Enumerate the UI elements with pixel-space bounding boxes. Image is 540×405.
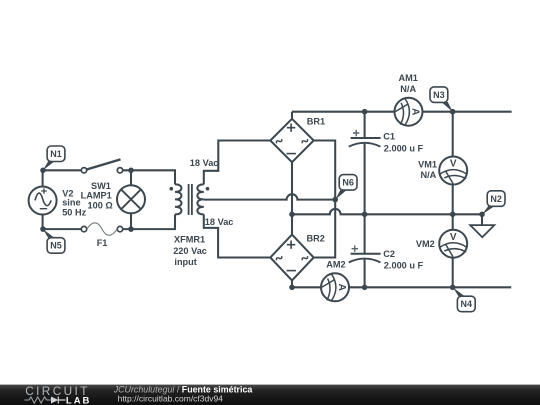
svg-text:VM1: VM1 (418, 160, 437, 170)
svg-text:http://circuitlab.com/cf3dv94: http://circuitlab.com/cf3dv94 (118, 394, 224, 404)
svg-text:N3: N3 (433, 90, 445, 100)
svg-text:AM2: AM2 (326, 259, 345, 269)
svg-text:VM2: VM2 (416, 239, 435, 249)
svg-text:BR2: BR2 (307, 234, 325, 244)
svg-text:100 Ω: 100 Ω (88, 201, 113, 211)
svg-text:input: input (174, 257, 196, 267)
svg-text:N5: N5 (50, 241, 62, 251)
svg-text:C1: C1 (383, 131, 395, 141)
svg-text:220 Vac: 220 Vac (173, 246, 207, 256)
svg-text:SW1: SW1 (91, 181, 111, 191)
svg-text:N/A: N/A (400, 84, 416, 94)
svg-text:2.000 u F: 2.000 u F (384, 144, 424, 154)
svg-text:V: V (450, 232, 457, 243)
svg-text:V: V (450, 159, 457, 170)
svg-text:LAMP1: LAMP1 (81, 191, 112, 201)
svg-text:50 Hz: 50 Hz (62, 208, 86, 218)
svg-text:N6: N6 (342, 178, 354, 188)
svg-text:C2: C2 (383, 249, 395, 259)
svg-text:AM1: AM1 (398, 73, 417, 83)
svg-text:F1: F1 (97, 238, 108, 248)
svg-text:LAB: LAB (66, 396, 92, 405)
svg-text:N4: N4 (461, 299, 473, 309)
svg-text:N1: N1 (50, 149, 62, 159)
svg-text:18 Vac: 18 Vac (205, 217, 234, 227)
svg-text:sine: sine (62, 198, 80, 208)
svg-text:N2: N2 (490, 194, 502, 204)
svg-text:A: A (409, 108, 420, 115)
svg-text:N/A: N/A (420, 170, 436, 180)
svg-text:2.000 u F: 2.000 u F (384, 261, 424, 271)
svg-text:BR1: BR1 (307, 116, 325, 126)
svg-text:18 Vac: 18 Vac (190, 158, 219, 168)
svg-text:XFMR1: XFMR1 (174, 234, 205, 244)
svg-text:A: A (336, 284, 347, 291)
